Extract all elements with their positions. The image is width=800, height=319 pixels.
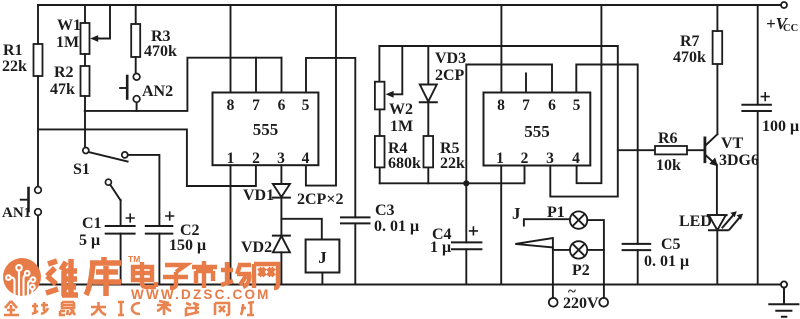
relay contact J blade	[515, 238, 553, 247]
svg-text:4: 4	[302, 150, 310, 167]
svg-text:2CP×2: 2CP×2	[297, 191, 343, 208]
switch S1	[83, 148, 89, 154]
diode VD2	[273, 235, 290, 237]
svg-text:WWW.DZSC.COM: WWW.DZSC.COM	[131, 287, 271, 302]
svg-text:4: 4	[572, 150, 580, 167]
svg-text:2: 2	[521, 150, 529, 167]
wire pin1 U1 to ground rail	[230, 165, 232, 284]
relay contact J fixed	[524, 219, 570, 225]
svg-text:22k: 22k	[2, 58, 27, 75]
diode VD1	[273, 184, 290, 197]
wire blade to mains terminal	[552, 247, 554, 298]
svg-text:6: 6	[548, 97, 556, 114]
resistor R4	[375, 136, 385, 167]
capacitor C1	[106, 226, 135, 234]
wire W2 top	[378, 46, 380, 82]
capacitor C3	[341, 217, 370, 223]
wire output net of U2: W2 top, wiper, VD3	[379, 46, 617, 197]
svg-text:1: 1	[227, 150, 235, 167]
diode VD3	[420, 85, 437, 102]
svg-text:150 μ: 150 μ	[169, 237, 206, 254]
wire S1 lower contact to C1	[120, 200, 122, 226]
watermark char 维	[46, 259, 78, 296]
svg-text:7: 7	[252, 97, 260, 114]
wire pin4 U2 to rail	[577, 5, 602, 183]
capacitor C2	[146, 226, 173, 234]
svg-text:VD2: VD2	[241, 239, 272, 256]
wire R7 bottom to collector	[716, 64, 718, 134]
svg-text:P2: P2	[572, 262, 590, 279]
wire S1 throw to C2	[128, 155, 160, 226]
wire VD1 to VD2	[280, 198, 282, 236]
wire R6 line from output net	[618, 149, 655, 151]
capacitor C4	[452, 242, 481, 249]
capacitor 100u	[757, 5, 759, 105]
wire R1 top from rail	[37, 5, 39, 44]
svg-text:3: 3	[546, 150, 554, 167]
wire timing node horizontal to pin2 U2	[380, 166, 525, 184]
resistor R7	[713, 31, 723, 64]
svg-text:680k: 680k	[388, 155, 421, 172]
wire pin6 stub U1	[281, 58, 283, 93]
wire pin5 U2 to C5	[576, 65, 637, 244]
wire pin5 U1 to C3	[306, 58, 355, 218]
resistor R1	[34, 44, 43, 76]
svg-text:1 μ: 1 μ	[430, 239, 451, 256]
svg-text:R2: R2	[54, 64, 74, 81]
svg-text:3DG6: 3DG6	[719, 152, 759, 169]
resistor R6	[655, 146, 687, 154]
svg-text:S1: S1	[73, 161, 90, 178]
svg-text:VT: VT	[721, 135, 744, 152]
wire R5 bottom	[427, 167, 429, 183]
svg-text:VD3: VD3	[435, 50, 466, 67]
watermark char 库	[86, 257, 121, 296]
wire pin6 U2 down through node to C4	[466, 65, 552, 243]
node +Vcc terminal circle	[781, 2, 787, 8]
svg-text:C3: C3	[375, 202, 395, 219]
wire pin1 U2 to ground rail	[500, 166, 502, 285]
wire pin8 U2 from rail	[500, 5, 502, 93]
wire P1 right side down	[587, 220, 604, 298]
wire AN1 bottom to ground rail	[37, 215, 39, 284]
watermark char 网	[254, 264, 278, 288]
wire W2 to R4	[379, 109, 381, 136]
watermark char 子	[163, 265, 188, 288]
svg-text:TM: TM	[128, 254, 140, 264]
wire trigger branch R1/AN1 node to pin2 of U1	[38, 129, 256, 186]
svg-text:8: 8	[227, 97, 235, 114]
LED	[708, 214, 727, 216]
node junction dot	[463, 180, 469, 186]
lamp P1	[570, 211, 587, 228]
wire AN2 bottom stub	[136, 102, 138, 111]
potentiometer W1	[81, 23, 90, 54]
svg-text:1: 1	[496, 150, 504, 167]
wire R4 bottom	[379, 167, 381, 183]
svg-text:555: 555	[253, 120, 279, 139]
wire J bottom to ground rail	[321, 273, 323, 285]
svg-text:555: 555	[524, 122, 550, 141]
resistor R3	[131, 24, 140, 57]
svg-text:C5: C5	[661, 236, 681, 253]
potentiometer W2	[375, 82, 385, 110]
wire R7 top from rail	[716, 5, 718, 31]
svg-text:10k: 10k	[656, 157, 681, 174]
svg-text:470k: 470k	[673, 49, 706, 66]
watermark char 市	[192, 261, 217, 288]
svg-text:R1: R1	[3, 42, 23, 59]
wire pin7 stub U1	[255, 58, 257, 93]
watermark char 电	[133, 262, 156, 287]
node mains terminal right	[599, 298, 608, 307]
wire ground rail	[38, 284, 781, 286]
svg-text:W2: W2	[389, 101, 413, 118]
node ground terminal circle	[781, 281, 787, 287]
svg-text:1M: 1M	[56, 34, 79, 51]
svg-text:J: J	[318, 248, 327, 267]
wire pin3 U1 to VD1	[280, 165, 282, 184]
relay coil J	[306, 240, 340, 273]
svg-text:AN1: AN1	[2, 205, 31, 221]
transistor VT	[704, 138, 707, 162]
wire R3 to AN2	[135, 57, 137, 73]
wire W1 to R2	[84, 54, 86, 66]
svg-text:LED: LED	[679, 213, 712, 230]
wire pin8 U1 from rail	[230, 5, 232, 93]
op-amp U1 555 box	[213, 93, 319, 166]
svg-text:AN2: AN2	[142, 83, 173, 100]
wire R1 bottom to AN1	[37, 76, 39, 186]
wire VD2 to ground rail	[280, 252, 282, 284]
resistor R5	[424, 136, 434, 167]
svg-text:47k: 47k	[50, 81, 75, 98]
svg-text:R6: R6	[658, 130, 678, 147]
svg-text:5: 5	[302, 97, 310, 114]
svg-text:22k: 22k	[440, 155, 465, 172]
wire VD3 to R5	[427, 102, 429, 136]
resistor R2	[81, 66, 90, 96]
svg-text:2: 2	[252, 150, 260, 167]
wire pin7 stub U2	[525, 73, 527, 92]
pushbutton AN2	[133, 74, 140, 81]
wire R2 bottom to S1	[84, 96, 86, 147]
op-amp U2 555 box	[484, 93, 591, 166]
svg-text:5 μ: 5 μ	[79, 232, 100, 249]
wire P2 left to blade net	[553, 249, 570, 251]
wire VD3 top	[427, 46, 429, 85]
svg-text:8: 8	[497, 97, 505, 114]
wire R3 top from rail	[135, 5, 137, 24]
capacitor C5	[623, 244, 651, 250]
watermark logo circle	[3, 258, 41, 296]
svg-text:470k: 470k	[144, 43, 177, 60]
svg-text:J: J	[512, 204, 521, 223]
svg-text:C1: C1	[82, 215, 102, 232]
wire R6 to VT base	[687, 149, 704, 151]
wire pin4 U1 to rail	[306, 5, 336, 186]
pushbutton AN1	[35, 187, 42, 194]
wire P2 right	[587, 249, 604, 251]
svg-text:2CP: 2CP	[435, 67, 465, 84]
wire W1 top from rail	[84, 5, 86, 23]
svg-text:W1: W1	[57, 17, 81, 34]
svg-text:1M: 1M	[390, 118, 413, 135]
wire node to relay J coil	[281, 219, 321, 240]
svg-text:P1: P1	[547, 204, 565, 221]
svg-text:100 μ: 100 μ	[762, 118, 799, 135]
watermark char 场	[221, 262, 251, 287]
svg-text:0. 01 μ: 0. 01 μ	[374, 218, 419, 235]
wire emitter to LED	[716, 165, 718, 215]
svg-text:0. 01 μ: 0. 01 μ	[644, 253, 689, 270]
svg-text:7: 7	[522, 97, 530, 114]
svg-text:VD1: VD1	[243, 187, 274, 204]
wire R2/AN2 node to pins 7,6 of U1	[85, 58, 282, 111]
svg-text:220V: 220V	[563, 295, 599, 312]
svg-text:3: 3	[277, 150, 285, 167]
node mains terminal left	[549, 298, 558, 307]
watermark slogan row	[4, 301, 254, 315]
svg-text:6: 6	[278, 97, 286, 114]
svg-text:R7: R7	[680, 33, 700, 50]
wire LED cathode to ground rail	[716, 230, 718, 284]
svg-text:CC: CC	[783, 23, 798, 34]
lamp P2	[570, 241, 587, 258]
svg-text:5: 5	[573, 97, 581, 114]
ground	[769, 288, 798, 317]
wire top VCC rail	[38, 4, 781, 6]
